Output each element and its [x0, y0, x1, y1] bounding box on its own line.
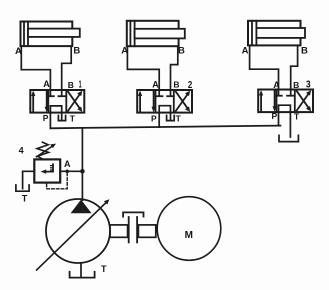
coupling discs	[128, 217, 130, 242]
svg-text:A: A	[43, 79, 50, 89]
cylinder C3 rod	[256, 28, 305, 38]
svg-text:3: 3	[306, 78, 311, 90]
relief valve RV4 internal arrow	[45, 164, 53, 171]
svg-text:B: B	[68, 80, 74, 90]
wire C2-A to valve V2-A	[127, 46, 159, 95]
pump P1 variable displacement arrow	[37, 202, 107, 270]
svg-text:T: T	[70, 113, 76, 123]
wire pump riser	[81, 128, 83, 200]
valve U1 left-square arrows	[32, 94, 34, 113]
valve U1 body	[30, 90, 84, 113]
valve U3 left-square arrows	[260, 93, 262, 112]
cylinder C1 piston	[23, 22, 25, 47]
tank symbol under valve U3	[279, 135, 298, 141]
node A junction dot (pilot tap)	[65, 170, 69, 174]
cylinder C2 body	[127, 21, 179, 46]
tank symbol under valve U1	[58, 116, 65, 121]
svg-text:B: B	[301, 46, 308, 57]
node junction dot (relief line / riser)	[80, 169, 85, 174]
wire relief valve to tank	[23, 171, 35, 188]
svg-text:A: A	[152, 80, 159, 90]
svg-text:P: P	[43, 113, 49, 123]
svg-text:P: P	[151, 113, 157, 123]
relief valve RV4 adjustment arrow	[37, 146, 53, 157]
wire C1-B to valve V1-B	[62, 46, 71, 95]
cylinder C3 piston	[251, 21, 253, 46]
valve U1 center blocked port B	[58, 95, 65, 97]
wire C2-B to valve V2-B	[171, 46, 178, 95]
valve U3 right-square crossed arrows	[297, 93, 309, 111]
svg-text:A: A	[242, 46, 249, 57]
svg-text:A: A	[273, 80, 280, 90]
cylinder C1 rod	[28, 29, 80, 37]
valve U3 center P-T bypass	[279, 105, 291, 137]
relief valve RV4 body	[34, 159, 60, 182]
cylinder C2 piston	[129, 21, 131, 46]
svg-text:2: 2	[188, 79, 193, 91]
wire C1-A to valve V1-A	[21, 46, 50, 95]
valve U3 center blocked port A	[275, 95, 282, 97]
pump P1 circle	[46, 199, 110, 263]
valve U3 body	[258, 90, 313, 113]
cylinder C1 body	[21, 22, 73, 47]
valve U1 right-square crossed arrows	[68, 93, 80, 111]
valve U2 right-square crossed arrows	[176, 93, 188, 111]
svg-text:B: B	[173, 80, 179, 90]
pilot line (dashed)	[47, 173, 68, 189]
wire relief valve to riser	[60, 170, 82, 172]
coupling guard bracket	[123, 212, 143, 216]
svg-text:4: 4	[19, 145, 24, 155]
svg-text:P: P	[272, 111, 278, 121]
svg-text:T: T	[22, 194, 28, 204]
valve U1 center blocked port A	[47, 95, 54, 97]
valve U1 center P-T bypass	[50, 106, 61, 128]
motor M1 circle	[157, 197, 221, 261]
svg-text:1: 1	[79, 78, 82, 90]
wire C3-B to valve V3-B	[291, 45, 298, 95]
svg-text:M: M	[185, 230, 193, 241]
shaft left section	[110, 225, 128, 237]
tank symbol (pump drain)	[70, 272, 95, 278]
svg-text:T: T	[176, 113, 182, 123]
cylinder C2 rod	[135, 29, 185, 39]
shaft right section	[138, 225, 155, 237]
valve U2 center P-T bypass	[159, 106, 170, 127]
svg-text:B: B	[73, 46, 80, 57]
valve U2 left-square arrows	[139, 94, 141, 113]
valve U2 center blocked port B	[167, 95, 174, 97]
svg-text:T: T	[294, 112, 300, 122]
wire C3-A to valve V3-A	[250, 45, 279, 95]
pump P1 flow triangle	[71, 200, 92, 214]
relief valve RV4 spring	[37, 142, 49, 159]
tank symbol (relief valve drain)	[16, 185, 29, 191]
svg-text:B: B	[178, 46, 185, 57]
svg-text:B: B	[293, 80, 299, 90]
tank symbol under valve U2	[167, 116, 175, 121]
wire pressure manifold	[50, 126, 280, 129]
svg-text:A: A	[64, 159, 71, 169]
cylinder C3 body	[248, 21, 301, 46]
valve U2 center blocked port A	[156, 95, 163, 97]
valve U3 center blocked port B	[287, 95, 294, 97]
wire pump drain	[80, 263, 82, 277]
svg-text:T: T	[101, 264, 107, 274]
valve U2 body	[137, 90, 192, 113]
